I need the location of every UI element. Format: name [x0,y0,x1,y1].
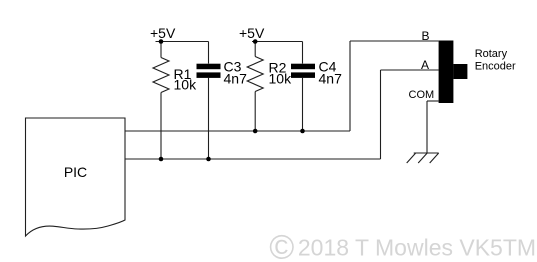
node R2 to bus B [253,129,258,134]
wire R1 bottom lead [160,93,162,160]
node C3 to bus A [206,157,211,162]
svg-text:A: A [421,58,429,72]
svg-text:10k: 10k [269,71,293,87]
node +5V junction 1 [159,39,164,44]
node +5V junction 2 [253,39,258,44]
node C4 to bus B [300,129,305,134]
wire C4 top lead [302,42,304,64]
svg-text:Rotary: Rotary [475,48,508,60]
rotary encoder SW1 body [439,41,454,104]
svg-text:COM: COM [409,89,435,101]
wire B horizontal [350,40,439,42]
svg-text:B: B [422,29,430,43]
resistor R2 [247,57,263,92]
svg-text:4n7: 4n7 [224,71,248,87]
ground [407,153,439,163]
wire vertical to B [349,41,351,131]
svg-text:PIC: PIC [64,164,87,180]
capacitor C4 plates [291,64,315,69]
wire COM stub [427,100,439,102]
wire lower bus PIC pin to node A [125,158,381,160]
node R1 to bus A [159,157,164,162]
svg-text:+5V: +5V [150,25,176,41]
wire +5V rail 2 [252,41,303,43]
svg-text:©2018 T Mowles VK5TM: ©2018 T Mowles VK5TM [269,229,536,262]
svg-text:+5V: +5V [239,25,265,41]
wire R1 top lead [160,42,162,58]
wire COM to ground [426,101,428,153]
rotary encoder shaft [453,64,467,79]
wire C3 bottom lead [208,78,210,159]
wire C4 bottom lead [302,78,304,131]
PIC U1 box [26,118,126,236]
wire C3 top lead [208,42,210,64]
wire +5V rail 1 [156,41,209,43]
svg-text:Encoder: Encoder [475,61,516,73]
wire upper bus PIC pin to node B [125,130,350,132]
wire R2 bottom lead [254,92,256,132]
resistor R1 [153,58,169,93]
wire vertical to A [380,70,382,159]
wire A horizontal [381,69,439,71]
svg-text:10k: 10k [174,76,198,92]
wire R2 top lead [254,42,256,57]
capacitor C3 plates [197,64,221,69]
svg-text:4n7: 4n7 [319,71,343,87]
